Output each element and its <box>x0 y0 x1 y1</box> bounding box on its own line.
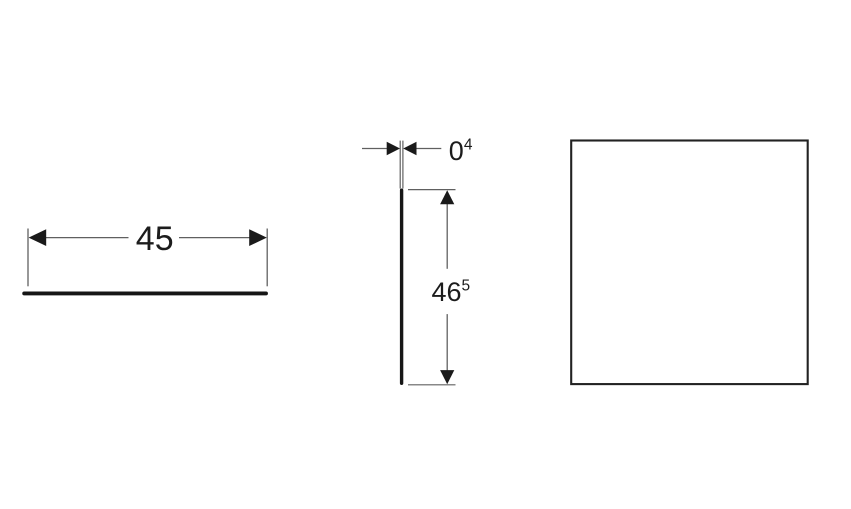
side view: extension line left face <box>399 141 401 189</box>
front view: panel outline square <box>571 141 808 385</box>
svg-text:45: 45 <box>136 220 174 258</box>
svg-text:465: 465 <box>432 277 471 307</box>
side view: height extension line top <box>408 189 456 191</box>
left view: arrowhead right <box>249 229 267 246</box>
side view: thickness arrowhead pointing left <box>403 142 416 155</box>
side view: extension line right face <box>402 141 404 189</box>
side view: height dimension line lower segment <box>446 314 448 371</box>
left view: extension line left <box>27 229 29 287</box>
side view: thickness arrowhead pointing right <box>387 142 400 155</box>
side view: panel side-view thick line <box>400 190 403 383</box>
left view: arrowhead left <box>29 229 47 246</box>
side view: thickness dimension line left <box>362 148 388 150</box>
side view: thickness dimension line right <box>416 148 442 150</box>
side view: height arrowhead pointing up <box>440 190 454 204</box>
left view: panel top-view thick line <box>24 291 266 295</box>
left view: extension line right <box>266 229 268 287</box>
left view: dimension line left segment <box>44 237 129 239</box>
left view: dimension line right segment <box>179 237 251 239</box>
side view: height arrowhead pointing down <box>440 370 454 384</box>
side view: height extension line bottom <box>408 384 456 386</box>
svg-text:04: 04 <box>449 136 473 166</box>
side view: height dimension line upper segment <box>446 203 448 269</box>
